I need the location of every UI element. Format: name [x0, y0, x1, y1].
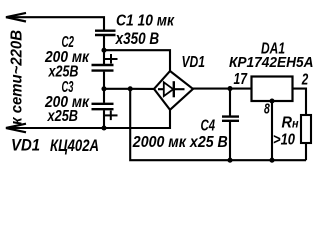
svg-text:x350 В: x350 В [115, 30, 159, 48]
capacitor C1 [95, 31, 116, 35]
diode symbol inside bridge [158, 88, 164, 90]
capacitor C2 [103, 50, 105, 64]
svg-text:>10: >10 [273, 131, 295, 148]
svg-text:к сети~220В: к сети~220В [9, 30, 26, 125]
node A junction [101, 48, 106, 53]
svg-text:C1 10 мк: C1 10 мк [116, 12, 175, 29]
regulator DA1 box [252, 77, 293, 102]
wire bridge DC+ to DA1 input [193, 88, 251, 90]
resistor Rn [301, 115, 311, 143]
wire load bottom to minus rail [305, 143, 307, 160]
svg-text:КР1742ЕН5А: КР1742ЕН5А [229, 54, 314, 71]
svg-text:2000 мк x25 В: 2000 мк x25 В [132, 134, 228, 151]
junction C3 bottom on mains lead 2 [101, 125, 106, 130]
wire node B to bridge AC2 via left bypass [104, 88, 154, 90]
svg-text:x25В: x25В [47, 108, 78, 125]
svg-text:VD1: VD1 [182, 54, 206, 71]
wire DA1 pin 2 output to load [293, 89, 307, 115]
arrow to mains (top) [6, 13, 26, 22]
wire node B down to minus rail [130, 89, 306, 160]
junction C4 bottom on rail [227, 158, 232, 163]
capacitor C3 [103, 89, 105, 103]
plus sign of C2 [105, 54, 118, 64]
diode bridge VD1 (diamond) [154, 71, 193, 110]
wire mains lead 1 (top) [6, 17, 104, 29]
capacitor C4 [229, 89, 231, 116]
junction C4 top [227, 86, 232, 91]
svg-text:x25В: x25В [48, 63, 79, 80]
svg-text:2: 2 [301, 72, 308, 89]
svg-text:VD1: VD1 [11, 137, 40, 155]
plus sign of C3 [105, 111, 118, 121]
svg-text:КЦ402А: КЦ402А [50, 137, 99, 155]
wire mains lead 2 (bottom) to bridge AC2 [6, 109, 170, 128]
wire C1 to node A [103, 36, 105, 50]
node B junction on wire to bridge [101, 86, 106, 91]
wire node A to bridge AC1 [104, 50, 170, 71]
arrow to mains (bottom) [6, 124, 26, 133]
svg-text:17: 17 [234, 71, 248, 88]
junction pin 8 on rail [269, 158, 274, 163]
svg-text:C4: C4 [201, 117, 216, 134]
svg-text:Rн: Rн [282, 115, 300, 132]
junction node B to rail branch [128, 86, 133, 91]
junction pin 8 at box [269, 98, 274, 103]
svg-text:8: 8 [264, 101, 270, 118]
wire DA1 pin 8 to minus rail [271, 101, 273, 160]
